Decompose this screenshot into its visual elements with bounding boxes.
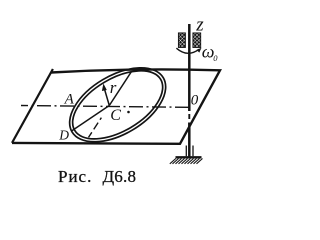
svg-text:A: A — [64, 92, 75, 108]
circle (double contour ellipse) — [57, 53, 178, 157]
node C dot — [127, 111, 130, 114]
svg-text:r: r — [110, 78, 117, 97]
ground line — [176, 156, 202, 158]
ground hatching — [170, 159, 203, 164]
wire: D to C — [72, 106, 110, 132]
svg-text:Рис.: Рис. — [58, 167, 92, 186]
svg-text:D: D — [58, 128, 69, 143]
svg-text:z: z — [195, 15, 204, 36]
axis z (vertical shaft) — [188, 24, 191, 111]
svg-text:Д6.8: Д6.8 — [103, 167, 137, 186]
svg-text:0: 0 — [213, 53, 218, 63]
rotation arrow omega0 — [176, 48, 199, 53]
radius arrow r — [105, 90, 110, 106]
wire: steep diameter above C (solid) — [109, 72, 131, 106]
bearing block left — [178, 33, 185, 48]
svg-text:0: 0 — [191, 93, 199, 109]
socket wall right — [192, 146, 194, 157]
bearing block right — [193, 33, 201, 48]
wire: steep diameter below C (dashed) — [89, 106, 110, 138]
svg-text:C: C — [110, 107, 121, 124]
wire: center line A-O (dash-dot) — [21, 106, 190, 108]
plane (parallelogram) — [12, 69, 53, 143]
socket wall left — [185, 146, 187, 157]
